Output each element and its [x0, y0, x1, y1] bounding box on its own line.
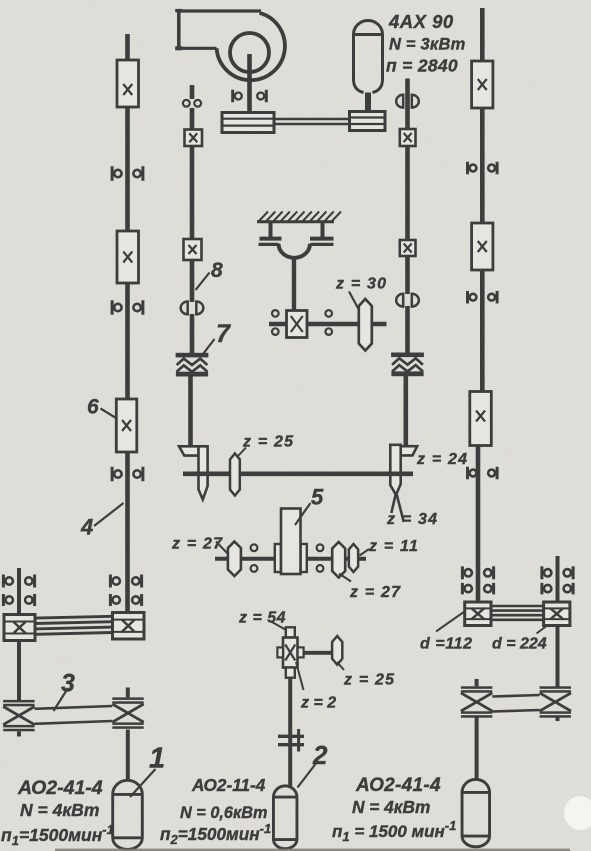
hanger shaft [292, 257, 296, 311]
scan bottom edge shade [55, 849, 570, 851]
shaft motor3 stub above [475, 679, 479, 686]
fan pulley [222, 113, 274, 133]
shaft col2 to bevel [188, 377, 193, 448]
v-belt lines item3 [35, 706, 113, 709]
coupling box col2 a [185, 130, 203, 147]
coupling box colR 2 [472, 223, 493, 270]
gear z=25 lower [332, 636, 342, 665]
flat belt left drive [35, 616, 113, 618]
coupling box col3 a [400, 129, 416, 146]
bearing pair colA 1 [111, 166, 114, 181]
left layshaft stub+bearings [17, 568, 21, 615]
shaft motor3 [475, 718, 479, 781]
bevel pinion left [179, 446, 199, 455]
drum item5 left flange [275, 544, 281, 572]
bearing pairs colR bottom [461, 566, 464, 579]
shaft col3 to bevel [403, 376, 408, 446]
left layshaft lower [17, 641, 21, 701]
v-belt pulley left stub [17, 732, 21, 737]
worm z54 top square [286, 627, 295, 637]
scan artifact white patch [564, 796, 591, 830]
flat belt right drive [491, 605, 544, 608]
v-belt pulley right [112, 697, 143, 700]
bearing pairs colA bottom [109, 575, 112, 588]
svg-text:АО2-11-4: АО2-11-4 [191, 775, 266, 795]
bearing pair colR 3 [466, 467, 469, 480]
coupling box colR 3 [470, 392, 492, 446]
wall/ceiling hatching [259, 212, 268, 222]
drum item5 right flange [301, 544, 307, 572]
right layshaft lower [556, 626, 560, 687]
motor M2 (AO2-11-4) [273, 786, 297, 849]
svg-text:N = 0,6кВт: N = 0,6кВт [180, 804, 267, 822]
svg-text:п = 2840: п = 2840 [386, 56, 458, 76]
shaft col2 mid [190, 146, 195, 239]
shaft motor2 up [288, 678, 292, 786]
shaft colA c [125, 452, 130, 615]
motor 4AX90 capsule [354, 21, 383, 93]
svg-text:8: 8 [211, 259, 223, 282]
shaft colA top stub [125, 34, 130, 61]
hanger feet bars [260, 237, 282, 241]
bearing rings col2 top [183, 100, 190, 107]
coupling box colA 1 [117, 60, 139, 107]
shaft colR b [480, 270, 485, 392]
bearing halfrings col2 [181, 302, 188, 315]
shaft motor1 [126, 730, 130, 782]
shaft col2 mid2 [190, 260, 195, 302]
bearing halfrings col3 top [396, 95, 403, 108]
elastic coupling 7 [176, 353, 209, 358]
flat pulley right (crossed) [113, 613, 145, 640]
belt fan-to-motor [274, 118, 350, 121]
elastic coupling col3 [391, 353, 424, 358]
bearing pair colA 3 [111, 467, 114, 482]
shaft colA a [125, 107, 130, 232]
v-belt pulley right-left [461, 686, 492, 689]
svg-text:N = 4кВт: N = 4кВт [20, 800, 99, 820]
bearing pair colA 2 [111, 300, 114, 315]
worm shaft z30 [269, 322, 387, 327]
gear z=11 [349, 544, 358, 572]
coupling box colR 1 [472, 61, 493, 108]
worm z54 bottom square [286, 668, 295, 678]
hanger lower bars [259, 243, 279, 246]
bevel cross shaft [183, 471, 413, 476]
bevel wheel right z24 z34 [390, 445, 400, 495]
worm z54 side tabs [277, 647, 283, 657]
hanger legs [269, 223, 273, 237]
svg-text:z = 24: z = 24 [416, 451, 468, 468]
svg-text:d = 224: d = 224 [492, 636, 547, 653]
worm z54 box [283, 638, 298, 668]
svg-text:z = 25: z = 25 [242, 434, 294, 451]
motor M3 (AO2-41-4) [462, 779, 490, 846]
svg-text:АО2-41-4: АО2-41-4 [355, 775, 441, 796]
svg-text:z = 27: z = 27 [171, 536, 223, 553]
shaft col3 mid2 [405, 256, 410, 294]
motor 4AX90 shaft neck [365, 93, 371, 113]
svg-text:z = 25: z = 25 [343, 672, 395, 689]
gear z=27 left [228, 542, 241, 577]
shaft motor1 stub above [126, 688, 130, 698]
fan impeller circle [230, 33, 269, 72]
svg-text:z = 27: z = 27 [349, 584, 401, 601]
coupling box colA 3 (item 6) [116, 399, 137, 452]
bevel pinion right [401, 446, 418, 455]
right layshaft lower stub [556, 718, 560, 722]
svg-text:z = 34: z = 34 [386, 511, 438, 528]
svg-text:z = 54: z = 54 [238, 610, 286, 627]
svg-text:z = 30: z = 30 [335, 276, 387, 293]
v-belt pulley right-right [540, 686, 571, 689]
svg-text:N = 3кВт: N = 3кВт [389, 36, 465, 54]
bearing rings worm shaft [272, 310, 279, 317]
motor M1 (AO2-41-4) [113, 780, 143, 849]
fan/blower volute casing [217, 13, 285, 80]
svg-text:1: 1 [149, 743, 165, 775]
coupling box colA 2 [117, 231, 139, 283]
shaft col3 mid [405, 146, 410, 240]
svg-text:3: 3 [61, 670, 75, 698]
shaft col3 low [405, 306, 410, 353]
svg-text:4: 4 [80, 515, 93, 540]
motor 4AX90 pulley [350, 112, 386, 131]
flat pulley left (crossed) [4, 615, 35, 641]
shaft colA b [125, 283, 130, 400]
svg-text:z = 11: z = 11 [368, 538, 419, 555]
svg-text:N = 4кВт: N = 4кВт [352, 797, 430, 817]
worm box z=2 upper [287, 311, 308, 338]
coupling box col2 b [184, 239, 202, 260]
bearing rings gear train [251, 544, 258, 551]
worm z54 output shaft [304, 651, 332, 655]
svg-text:АО2-41-4: АО2-41-4 [17, 777, 103, 799]
worm wheel z=30 [359, 299, 372, 351]
shaft col2 [190, 108, 195, 130]
bearing pair colR 2 [466, 291, 469, 304]
flat pulley d=112 [465, 602, 491, 626]
fan shaft [247, 54, 252, 113]
svg-text:п1 = 1500 мин-1: п1 = 1500 мин-1 [332, 818, 456, 844]
hanger U bracket [279, 244, 311, 258]
shaft col2 top stub [190, 85, 195, 99]
v-belt lines right unit [492, 695, 539, 697]
bearing halfrings col3 [396, 294, 403, 307]
claw coupling motor2 [278, 735, 304, 738]
flat pulley d=224 [544, 602, 570, 626]
shaft col3 top [405, 79, 410, 131]
svg-text:4АХ 90: 4АХ 90 [388, 11, 454, 32]
svg-text:6: 6 [87, 396, 99, 419]
shaft colR c [476, 446, 481, 603]
gear z=25 upper [230, 454, 240, 496]
bearing pair colR 1 [466, 162, 469, 175]
shaft colR top [480, 8, 485, 62]
fan shaft bearing pair [231, 90, 234, 103]
shaft col2 low [190, 314, 195, 354]
drum item5 body [281, 509, 301, 575]
coupling box col3 b [400, 240, 416, 256]
bevel wheel left [199, 446, 208, 499]
svg-text:5: 5 [311, 485, 324, 510]
gear z=27 right [332, 542, 345, 578]
gear train shaft [215, 557, 366, 561]
right layshaft stub+bearings [556, 556, 560, 603]
svg-text:d =112: d =112 [420, 636, 473, 653]
shaft colR a [480, 108, 485, 224]
svg-text:z = 2: z = 2 [300, 695, 336, 712]
v-belt pulley left (item3) [3, 700, 34, 703]
svg-text:7: 7 [216, 320, 231, 348]
